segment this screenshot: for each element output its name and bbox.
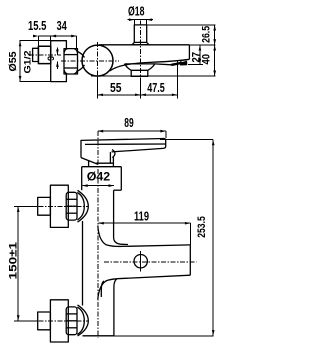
upper union bulge outer arc [78,190,89,222]
cylinder base line [132,44,149,46]
upper escutcheon [50,185,68,227]
dimension Ø42 [82,185,114,187]
lower escutcheon [50,300,68,342]
lever-top reference extension [189,44,215,46]
diverter housing right side [148,64,155,70]
top reference line [147,24,216,26]
cap step right [114,189,122,191]
outlet channel line [155,63,171,66]
svg-text:15.5: 15.5 [28,19,46,33]
spout right edge [189,245,191,275]
nut facet line bottom [64,67,78,69]
svg-text:119: 119 [134,209,149,223]
lower union bulge inner arc [77,307,84,334]
cylinder base flare right [147,42,149,44]
upper thread stub [38,197,51,215]
dimension 26.5 [214,25,216,45]
lower union axis centerline [29,320,88,322]
lower union nut [66,307,77,335]
down tube right wall [114,279,117,336]
front view vertical centerline [97,131,99,338]
handle lever (front) [81,139,166,158]
upper union nut [66,192,77,220]
wall thread stub G1/2 [33,48,39,61]
wall fitting axis centerline [29,54,61,56]
upper nut facet 2 [66,205,77,207]
nut chamfer bottom-left [64,70,67,74]
dimension Ø55 [20,40,67,42]
escutcheon plate (side) [51,41,67,82]
eccentric union box [38,46,50,63]
lower nut facet 1 [66,313,77,315]
handle pivot boss bump [112,150,115,158]
spout axis centerline [104,261,197,263]
bottom object edge [83,335,114,337]
neck right edge [112,157,114,166]
valve body vertical centerline [96,42,98,77]
adapter cone lower arc [78,65,85,71]
neck left edge [109,152,111,163]
svg-text:Ø42: Ø42 [87,170,111,184]
svg-text:150±1: 150±1 [8,242,20,280]
diverter circle vertical tick [140,251,142,272]
cartridge cap top [82,166,122,168]
spout bottom edge [117,275,190,279]
svg-text:G1/2: G1/2 [23,51,34,74]
spout neck inner fillet bottom [101,281,104,297]
cartridge cap right edge [120,167,122,191]
handle left bottom wedge [81,158,98,165]
dimension 40 [214,45,216,76]
lever right edge [188,45,190,60]
diverter knob [131,70,148,76]
upper nut facet 1 [66,198,77,200]
spout top edge [122,245,190,247]
spout underside curve [110,60,188,71]
valve body circle [82,45,113,76]
spout neck outer fillet top [98,226,122,247]
spout neck outer fillet bottom [98,279,117,300]
svg-text:40: 40 [200,54,212,64]
aerator slot thick mark [171,63,180,65]
spout outlet dark wedge [181,61,187,65]
dimension 27 [199,45,201,65]
body top line [99,44,189,46]
upper union bulge inner arc [77,193,84,220]
cartridge cap left edge [81,167,83,191]
shower outlet vertical centerline [140,21,142,79]
diverter housing left side [125,64,132,70]
diverter knob circle [134,255,147,268]
shower outlet cylinder [134,25,146,43]
nut facet line top [64,54,78,56]
svg-text:89: 89 [124,116,133,130]
svg-text:Ø55: Ø55 [7,51,19,71]
dimension 9 (axis offset) [56,48,58,55]
upper nut facet 3 [66,212,77,214]
dimension 119 [98,222,190,224]
body left edge [82,221,84,306]
lower union bulge outer arc [78,305,89,336]
lever tip bottom [181,59,190,65]
svg-text:9: 9 [46,56,56,61]
dimension Ø18 [133,20,135,25]
adapter cone upper arc [78,52,85,58]
neck edge left [88,161,90,167]
dimension 253.5 [160,139,213,141]
nut chamfer bottom-right [74,70,77,74]
svg-text:47.5: 47.5 [147,81,165,95]
lower nut facet 3 [66,327,77,329]
svg-text:Ø18: Ø18 [128,4,145,18]
dimension 150±1 [14,205,36,207]
nut chamfer top-left [64,49,67,53]
diverter housing top [125,63,156,65]
svg-text:55: 55 [110,81,122,95]
spout neck inner fillet top [114,238,128,245]
svg-text:253.5: 253.5 [196,216,208,238]
dimension 89 [98,130,166,132]
lower thread stub [38,312,51,330]
upper union axis centerline [29,205,88,207]
body right edge [113,190,115,237]
neck shelf [96,162,113,164]
dimension 15.5 and 34 [38,35,76,37]
cylinder base flare left [132,42,134,44]
body axis centerline [61,60,119,62]
handle top face inner line [85,143,165,145]
svg-text:26.5: 26.5 [200,26,212,43]
dimension 55 / 47.5 [96,77,98,98]
union nut [64,49,78,74]
svg-text:34: 34 [57,19,67,33]
nut chamfer top-right [74,49,77,53]
lower nut facet 2 [66,320,77,322]
